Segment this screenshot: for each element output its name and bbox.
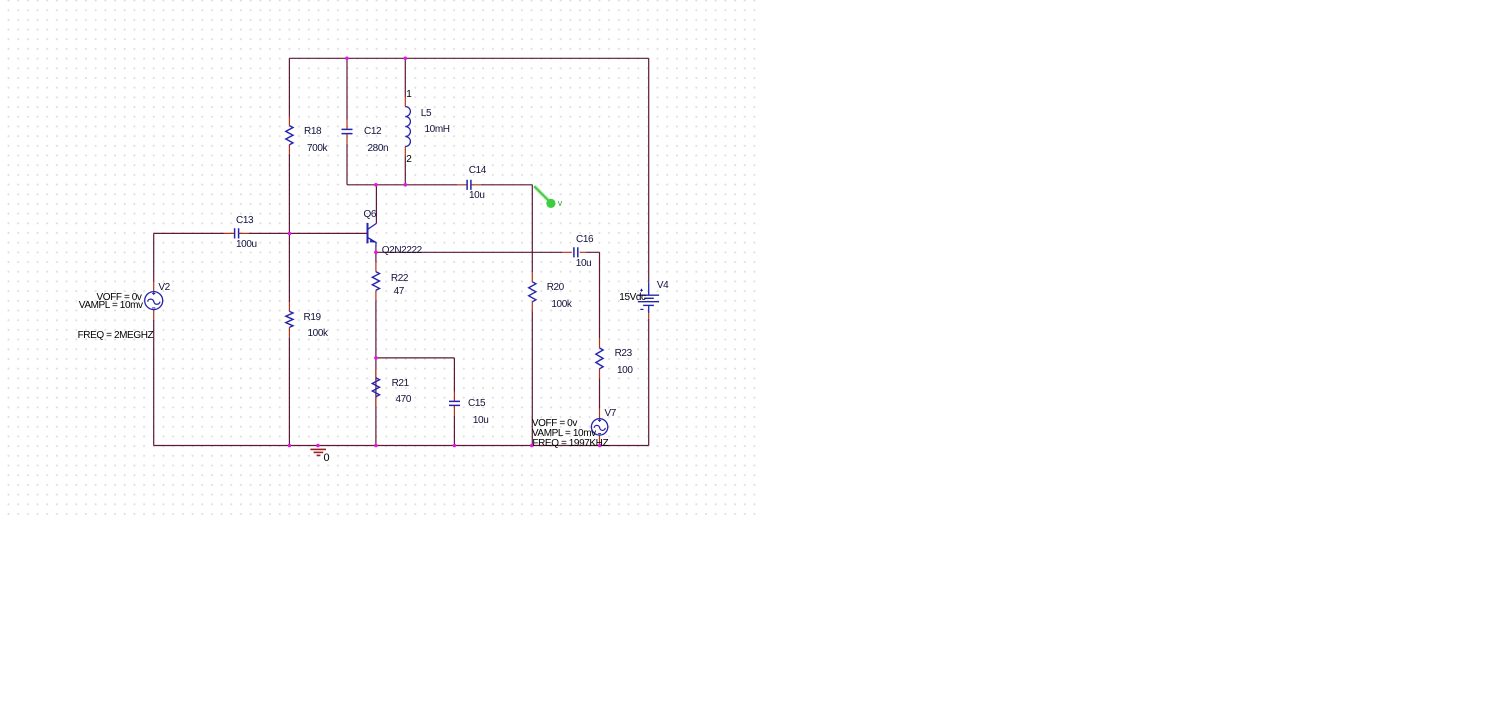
label C12 (364, 127, 381, 137)
value 470 (396, 395, 412, 405)
value 100 (617, 366, 633, 376)
voltage probe (534, 186, 549, 201)
red pin segments L5 (404, 97, 406, 157)
label Q6 (364, 210, 377, 220)
red pin segments V7 (599, 409, 601, 446)
red pin segment V4 bottom (648, 313, 650, 319)
wire R20 branch (531, 185, 533, 446)
red pin segments R19 (288, 302, 290, 337)
capacitor C16 (574, 247, 578, 257)
dotted schematic grid background (0, 0, 760, 520)
red pin segments C15 (453, 392, 455, 416)
capacitor C12 (342, 129, 353, 133)
label C16 (576, 235, 593, 245)
red pin segments R23 (599, 338, 601, 378)
resistor R21 (372, 378, 379, 397)
V7 property FREQ (532, 439, 608, 449)
value 15Vdc (619, 293, 645, 303)
label R22 (391, 274, 408, 284)
value 100u (236, 240, 257, 250)
label V2 (158, 283, 169, 293)
label C13 (236, 216, 253, 226)
wire V4 branch (648, 58, 650, 445)
capacitor C13 (235, 228, 239, 238)
value 10u C14 (469, 191, 485, 201)
wire LC bottom rail (347, 184, 532, 186)
red pin segments C12 (346, 120, 348, 144)
wire R21 top rail (376, 357, 455, 359)
wire emitter to C16 (376, 251, 600, 253)
value 100k R19 (308, 329, 328, 339)
red pin segments R18 (288, 117, 290, 154)
V7 property VOFF (532, 419, 577, 429)
capacitor C15 (449, 401, 460, 405)
red pin segments R21 (375, 368, 377, 406)
pin number 2 (406, 155, 411, 165)
label C14 (469, 166, 486, 176)
wire L5 branch (404, 58, 406, 185)
wire collector (375, 185, 377, 224)
V2 property VAMPL (79, 301, 143, 311)
resistor R18 (286, 126, 293, 145)
label L5 (421, 109, 431, 119)
red pin segments C16 (562, 251, 586, 253)
wire V2 branch (153, 233, 155, 445)
source V2 (145, 292, 163, 310)
label C15 (468, 399, 485, 409)
value 10mH (425, 125, 450, 135)
red pin segments R22 (375, 262, 377, 300)
wire C13 / base (154, 232, 368, 234)
red pin segments V2 (153, 282, 155, 320)
red pin segments C14 (457, 184, 481, 186)
probe label v (558, 199, 563, 208)
value Q2N2222 (382, 246, 422, 256)
wire bottom rail (154, 445, 649, 447)
resistor R22 (372, 272, 379, 291)
wire emitter rail (375, 247, 377, 446)
red pin segments C13 (224, 232, 249, 234)
label R18 (304, 127, 321, 137)
value 47 (394, 287, 404, 297)
ground 0 symbol (310, 449, 326, 455)
V2 property FREQ (78, 331, 154, 341)
value 10u C16 (576, 259, 592, 269)
red pin segments R20 (531, 272, 533, 311)
wire left branch vertical (288, 58, 290, 445)
label V4 (657, 281, 668, 291)
label V7 (605, 409, 616, 419)
wire output branch (599, 252, 601, 408)
value 280n (368, 144, 389, 154)
battery V4 (638, 282, 659, 313)
inductor L5 (405, 107, 410, 147)
source V7 (591, 419, 607, 435)
wire top rail (289, 57, 648, 59)
value 10u C15 (473, 416, 489, 426)
label R19 (304, 313, 321, 323)
V2 property VOFF (97, 293, 142, 303)
V7 property VAMPL (532, 429, 596, 439)
label R23 (615, 349, 632, 359)
resistor R19 (286, 311, 293, 327)
capacitor C14 (467, 180, 471, 190)
resistor R20 (529, 282, 536, 302)
transistor emitter arrow (370, 238, 376, 242)
value 700k (307, 144, 327, 154)
label R21 (392, 379, 409, 389)
wire C15 branch (453, 358, 455, 446)
value 100k R20 (551, 300, 571, 310)
ground label 0 (324, 453, 330, 463)
pin number 1 (406, 90, 411, 100)
junction dots (288, 57, 602, 448)
resistor R23 (596, 348, 603, 369)
wire C12 branch (346, 58, 348, 185)
label R20 (547, 283, 564, 293)
transistor Q2N2222 Q6 (368, 223, 377, 247)
